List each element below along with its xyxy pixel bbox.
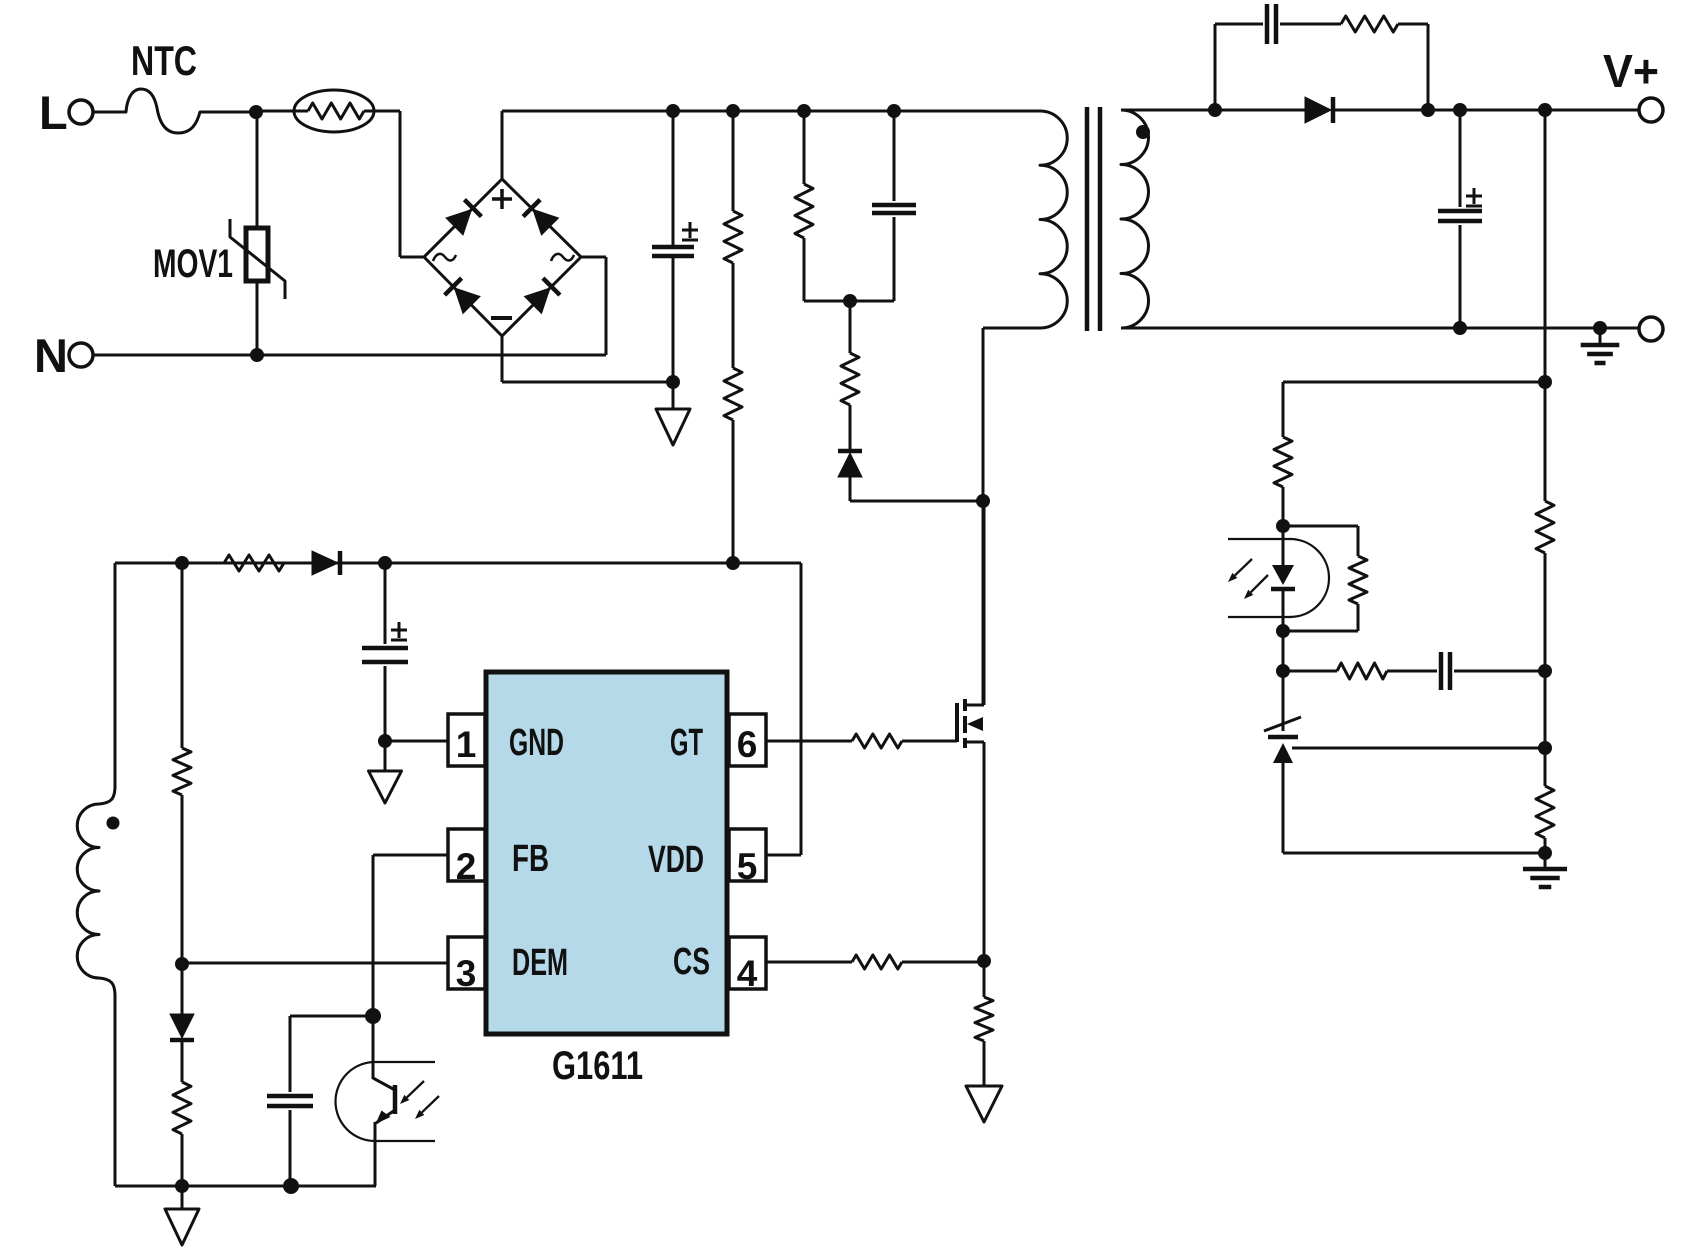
svg-text:6: 6 bbox=[737, 724, 758, 765]
svg-text:3: 3 bbox=[456, 953, 477, 994]
svg-text:L: L bbox=[39, 86, 68, 139]
svg-text:V+: V+ bbox=[1603, 45, 1659, 97]
svg-text:4: 4 bbox=[737, 953, 758, 994]
svg-text:GT: GT bbox=[670, 722, 703, 764]
svg-text:FB: FB bbox=[512, 838, 549, 880]
svg-text:N: N bbox=[34, 329, 68, 382]
svg-text:CS: CS bbox=[673, 941, 710, 983]
svg-text:2: 2 bbox=[456, 846, 477, 887]
svg-text:G1611: G1611 bbox=[552, 1044, 643, 1088]
svg-text:NTC: NTC bbox=[131, 37, 197, 84]
svg-text:5: 5 bbox=[737, 846, 758, 887]
svg-text:VDD: VDD bbox=[648, 839, 704, 881]
svg-text:GND: GND bbox=[509, 722, 564, 764]
svg-text:MOV1: MOV1 bbox=[153, 242, 233, 286]
svg-text:1: 1 bbox=[456, 724, 477, 765]
svg-text:DEM: DEM bbox=[512, 942, 568, 984]
